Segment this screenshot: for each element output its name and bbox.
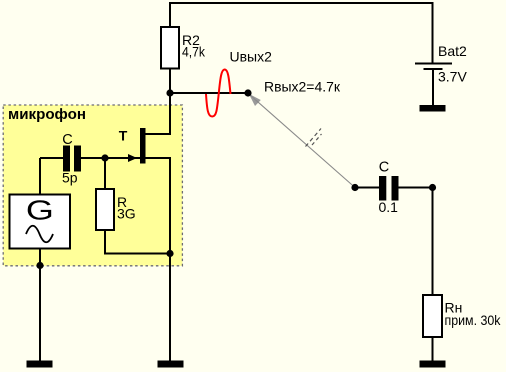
capacitor C 5p plates: [63, 146, 70, 172]
wire Rн bottom: [432, 337, 434, 361]
svg-text:0.1: 0.1: [379, 199, 399, 215]
node C left: [351, 184, 358, 191]
capacitor C 0.1 right wire: [399, 188, 433, 296]
svg-text:C: C: [62, 132, 72, 148]
gate arrow: [128, 154, 137, 162]
node source junction: [166, 250, 173, 257]
svg-text:5p: 5p: [62, 169, 78, 185]
wire output horizontal: [170, 92, 248, 94]
svg-text:Rвых2=4.7к: Rвых2=4.7к: [264, 79, 341, 95]
svg-text:G: G: [26, 195, 54, 226]
node gate: [101, 154, 108, 161]
capacitor C 0.1 left wire: [355, 187, 379, 189]
wire source: [145, 158, 170, 254]
wire drain: [145, 93, 170, 134]
resistor R 3G: [96, 189, 114, 230]
node R2 output: [166, 89, 173, 96]
wire R2 top stub: [169, 3, 171, 28]
microphone module box: [3, 105, 182, 266]
wire battery top drop: [432, 3, 434, 64]
node G bottom: [36, 262, 43, 269]
svg-text:прим. 30k: прим. 30k: [445, 312, 502, 328]
wire gate: [81, 157, 140, 159]
svg-text:3G: 3G: [117, 206, 136, 222]
battery Bat2 long plate: [415, 63, 452, 65]
capacitor C 0.1 plates: [379, 176, 386, 201]
wire top horizontal: [169, 2, 434, 4]
capacitor C 5p left wire: [40, 157, 63, 159]
battery Bat2 short plate: [424, 68, 443, 70]
sine symbol: [26, 226, 53, 243]
svg-text:3.7V: 3.7V: [438, 69, 467, 85]
node Uвых2: [244, 89, 251, 96]
ground left: [27, 361, 53, 368]
gray diagonal wire: [250, 95, 355, 188]
generator G box: [10, 195, 71, 249]
wire R2 bottom: [169, 69, 171, 94]
svg-text:4,7k: 4,7k: [182, 44, 206, 60]
transistor T bar: [140, 128, 146, 164]
red sine wave: [206, 70, 231, 117]
ground battery: [420, 105, 446, 112]
wire R 3G bottom: [105, 230, 170, 254]
svg-text:микрофон: микрофон: [8, 106, 86, 123]
svg-text:Bat2: Bat2: [438, 43, 467, 59]
node C right corner: [429, 184, 436, 191]
ground Rн: [420, 361, 446, 368]
dashed slash mark A: [306, 129, 322, 147]
svg-text:C: C: [379, 160, 389, 176]
wire battery bottom: [432, 69, 434, 105]
wire source to ground: [169, 254, 171, 362]
ground center: [158, 361, 184, 368]
gray pointer arrow: [249, 94, 261, 106]
resistor R 3G drop wire: [104, 158, 106, 189]
dashed slash mark B: [312, 134, 322, 145]
svg-text:T: T: [119, 128, 128, 144]
wire G top: [39, 158, 41, 195]
resistor Rн: [423, 295, 442, 337]
svg-text:Uвых2: Uвых2: [230, 49, 273, 65]
wire G bottom to ground: [39, 249, 41, 362]
resistor R2: [161, 27, 179, 69]
